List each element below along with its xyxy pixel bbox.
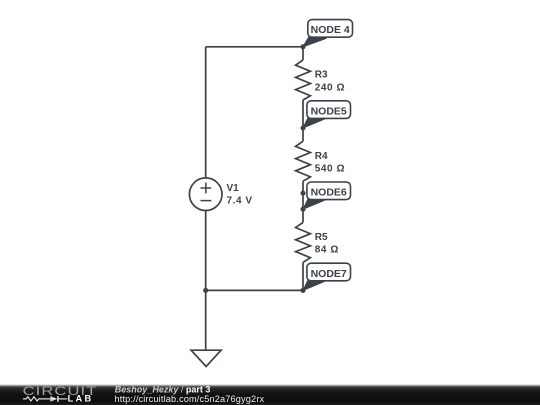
- node dot NODE6 junction: [300, 207, 305, 212]
- node A dot NODE4 junction: [300, 44, 305, 49]
- resistor R4: [296, 141, 311, 181]
- node dot NODE6 upper: [300, 191, 305, 196]
- svg-text:240 Ω: 240 Ω: [315, 82, 345, 93]
- svg-text:Beshoy_Hezky / part 3: Beshoy_Hezky / part 3: [115, 384, 211, 394]
- svg-text:NODE6: NODE6: [311, 187, 347, 199]
- label R4 value: [315, 151, 345, 175]
- wire right rail segment 4: [302, 262, 304, 290]
- node flag NODE5: [303, 101, 351, 128]
- label V1 value: [227, 183, 253, 207]
- wire ground lead: [205, 290, 207, 350]
- logo CIRCUIT text: [23, 385, 98, 398]
- svg-text:V1: V1: [227, 183, 240, 194]
- footer url text: [115, 394, 265, 404]
- resistor R5: [296, 222, 311, 262]
- wire right rail segment 2: [302, 100, 304, 141]
- wire right rail segment 1: [302, 47, 304, 60]
- label R5 value: [315, 232, 339, 256]
- svg-text:R3: R3: [315, 70, 328, 81]
- node flag NODE6: [303, 182, 351, 209]
- wire left rail lower: [205, 211, 207, 291]
- node dot ground junction: [203, 288, 208, 293]
- node dot NODE7 junction: [300, 288, 305, 293]
- svg-text:NODE5: NODE5: [311, 105, 347, 117]
- wire right rail segment 3: [302, 181, 304, 222]
- svg-text:NODE 4: NODE 4: [311, 24, 350, 36]
- wire left rail upper: [205, 47, 207, 178]
- logo schematic glyph: [23, 396, 67, 402]
- voltage source V1: [189, 178, 222, 211]
- svg-text:http://circuitlab.com/c5n2a76g: http://circuitlab.com/c5n2a76gyg2rx: [115, 394, 265, 404]
- svg-text:R5: R5: [315, 232, 328, 243]
- resistor R3: [296, 60, 311, 100]
- svg-text:LAB: LAB: [68, 394, 94, 404]
- footer bar: [0, 385, 540, 405]
- logo LAB text: [68, 394, 94, 404]
- label R3 value: [315, 70, 345, 94]
- svg-text:540 Ω: 540 Ω: [315, 164, 345, 175]
- ground: [191, 350, 221, 366]
- svg-text:7.4 V: 7.4 V: [227, 195, 253, 206]
- node flag NODE7: [303, 263, 351, 290]
- svg-text:NODE7: NODE7: [311, 268, 347, 280]
- wire bottom horizontal: [206, 289, 303, 291]
- wire top horizontal: [206, 46, 303, 48]
- svg-text:R4: R4: [315, 151, 328, 162]
- svg-text:84 Ω: 84 Ω: [315, 245, 339, 256]
- footer title text: [115, 384, 211, 394]
- node dot NODE5 junction: [300, 125, 305, 130]
- node flag NODE 4: [303, 20, 353, 47]
